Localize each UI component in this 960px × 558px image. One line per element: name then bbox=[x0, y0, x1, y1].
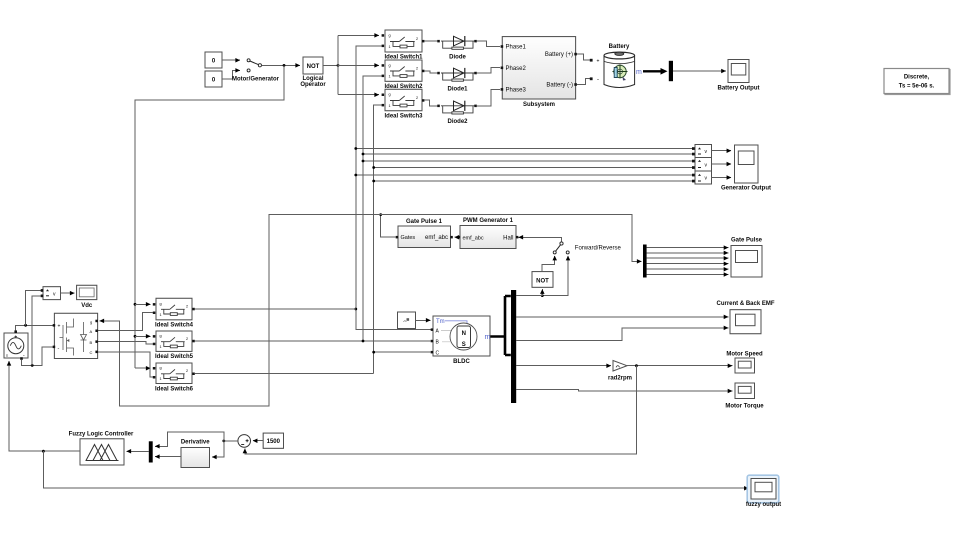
wire VM3 to scope bbox=[712, 177, 732, 179]
wire Battery(+) to battery bbox=[577, 54, 590, 60]
mux fuzzy inputs bbox=[149, 441, 153, 462]
Ideal Switch4 bbox=[153, 298, 195, 328]
annotation powergui Discrete bbox=[884, 69, 949, 94]
svg-text:Battery (+): Battery (+) bbox=[545, 52, 573, 58]
svg-text:Generator Output: Generator Output bbox=[721, 185, 771, 191]
wire g to sw6 bbox=[135, 367, 151, 369]
constant 0 (Zero1) bbox=[205, 52, 222, 68]
svg-text:Battery (-): Battery (-) bbox=[546, 83, 573, 89]
wire inverter B to sw5 bbox=[98, 342, 153, 344]
svg-text:C: C bbox=[90, 350, 93, 355]
wire PWM emf to GatePulse1 bbox=[455, 236, 458, 238]
node phase C tap bbox=[372, 351, 375, 354]
wire gates right branch bbox=[381, 215, 642, 262]
svg-text:Discrete,: Discrete, bbox=[904, 75, 930, 81]
wire FLC to fuzzy scope bbox=[43, 451, 748, 488]
svg-text:g: g bbox=[389, 34, 391, 38]
block PWM Generator 1 bbox=[458, 218, 519, 249]
svg-text:1: 1 bbox=[160, 345, 162, 349]
Diode bbox=[437, 36, 477, 61]
manual switch Forward/Reverse bbox=[519, 237, 622, 254]
Ideal Switch2 bbox=[382, 60, 425, 90]
svg-text:Diode1: Diode1 bbox=[447, 86, 468, 92]
svg-text:Phase2: Phase2 bbox=[506, 66, 527, 72]
wire derivative to mux in2 bbox=[155, 456, 181, 458]
wire gain to Motor Speed bbox=[627, 365, 732, 367]
bus selector bar bbox=[511, 290, 516, 403]
svg-text:B: B bbox=[90, 340, 93, 345]
svg-text:g: g bbox=[160, 302, 162, 306]
node phase A tap bbox=[354, 308, 357, 311]
svg-text:g: g bbox=[389, 93, 391, 97]
wire VM1 to scope bbox=[712, 150, 732, 152]
svg-text:g: g bbox=[389, 63, 391, 67]
svg-text:Diode2: Diode2 bbox=[447, 119, 468, 125]
svg-text:NOT: NOT bbox=[536, 278, 549, 284]
wire bar to CBEMF in1 bbox=[516, 316, 728, 318]
wire BLDC B input bbox=[195, 340, 431, 342]
wire speed feedback down to sum bbox=[245, 366, 637, 454]
svg-text:Forward/Reverse: Forward/Reverse bbox=[575, 246, 622, 252]
fuzzy logic controller bbox=[69, 432, 134, 465]
svg-text:s: s bbox=[6, 353, 8, 358]
wire hall to NOT1 bbox=[541, 289, 543, 295]
battery block bbox=[597, 44, 643, 88]
svg-text:1: 1 bbox=[389, 45, 391, 49]
wire gates left branch bbox=[100, 215, 381, 406]
node g sw4 bbox=[134, 303, 137, 306]
wire g to sw5 bbox=[135, 335, 151, 337]
inverter bridge block bbox=[53, 313, 98, 358]
node g-dist bbox=[337, 64, 340, 67]
wire inverter C to sw6 bbox=[98, 352, 153, 377]
svg-text:Battery: Battery bbox=[609, 44, 630, 50]
wire plus up to VM bbox=[26, 290, 42, 325]
gain rad2rpm bbox=[608, 361, 632, 382]
svg-text:m: m bbox=[485, 334, 491, 341]
voltage measurement VM3 bbox=[692, 171, 712, 184]
wire g to Ideal Switch3 bbox=[338, 94, 379, 96]
wire sw3 to Diode2 bbox=[424, 100, 437, 106]
Ideal Switch6 bbox=[153, 363, 195, 392]
svg-text:emf_abc: emf_abc bbox=[425, 235, 448, 241]
wire bar to Motor Torque bbox=[516, 390, 732, 391]
wire bar to CBEMF in2 bbox=[516, 328, 728, 341]
node error bbox=[222, 440, 225, 443]
wire g to Ideal Switch1 bbox=[338, 34, 379, 36]
voltage measurement Vdc sensor bbox=[41, 287, 61, 300]
svg-text:rad2rpm: rad2rpm bbox=[608, 376, 632, 382]
svg-text:2: 2 bbox=[416, 37, 418, 41]
scope fuzzy output (selected) bbox=[746, 475, 781, 508]
svg-text:N: N bbox=[462, 331, 466, 337]
scope Battery Output bbox=[718, 60, 760, 92]
wire g bus vertical bbox=[337, 35, 339, 94]
svg-text:Current & Back EMF: Current & Back EMF bbox=[716, 301, 774, 307]
Ideal Switch1 bbox=[382, 30, 425, 60]
wire 1500 to sum bbox=[253, 440, 263, 442]
wire mux to Battery Output bbox=[673, 70, 726, 72]
wire Diode2 to Phase3 bbox=[477, 89, 500, 106]
svg-text:NOT: NOT bbox=[307, 64, 320, 70]
voltage measurement VM1 bbox=[692, 145, 712, 158]
svg-text:Tm: Tm bbox=[436, 319, 445, 325]
svg-text:-: - bbox=[597, 77, 599, 83]
controlled voltage source bbox=[4, 330, 28, 359]
svg-text:Battery Output: Battery Output bbox=[718, 85, 760, 91]
wire sum output bbox=[224, 440, 238, 442]
scope Motor Torque bbox=[725, 383, 764, 409]
wire Zero1 to switch bbox=[222, 59, 240, 61]
svg-text:+: + bbox=[597, 58, 600, 64]
wire NOT to g-distribution bbox=[323, 64, 338, 66]
svg-text:Gates: Gates bbox=[401, 235, 416, 241]
node source plus bbox=[24, 324, 27, 327]
sum block bbox=[238, 435, 251, 448]
Diode1 bbox=[437, 68, 477, 92]
wire MotorGen feedback down-left bbox=[135, 65, 284, 368]
wire VM to Vdc display bbox=[61, 292, 75, 294]
manual switch Motor/Generator bbox=[232, 59, 280, 83]
svg-text:1: 1 bbox=[160, 377, 162, 381]
wire phase B vertical bbox=[363, 76, 382, 341]
wire switch to NOT bbox=[262, 64, 300, 66]
wire g to sw4 bbox=[135, 303, 151, 305]
scope Motor Speed bbox=[726, 351, 763, 373]
constant 0 (Zero2) bbox=[205, 71, 222, 87]
wire error to derivative bbox=[212, 441, 224, 457]
wire Diode to Phase1 bbox=[477, 41, 500, 46]
svg-text:2: 2 bbox=[416, 66, 418, 70]
wire meas line 4 bbox=[374, 167, 693, 169]
constant 1500 bbox=[263, 433, 283, 448]
torque source block bbox=[398, 312, 416, 329]
svg-text:1: 1 bbox=[389, 75, 391, 79]
svg-text:Ideal Switch5: Ideal Switch5 bbox=[155, 354, 194, 360]
svg-text:g: g bbox=[90, 319, 92, 324]
Ideal Switch5 bbox=[153, 331, 195, 360]
node FLC out bbox=[42, 450, 45, 453]
wires demux to Gate Pulse scope bbox=[647, 247, 729, 249]
wire hall to switch right contact bbox=[516, 256, 568, 296]
node after switch bbox=[283, 64, 286, 67]
wire Battery(-) to battery bbox=[577, 79, 590, 85]
wire sw2 to Diode1 bbox=[424, 71, 437, 73]
svg-text:Ideal Switch6: Ideal Switch6 bbox=[155, 386, 194, 392]
svg-text:Ideal Switch1: Ideal Switch1 bbox=[384, 54, 423, 60]
svg-text:Ts = 5e-06 s.: Ts = 5e-06 s. bbox=[899, 84, 935, 90]
svg-text:Motor/Generator: Motor/Generator bbox=[232, 77, 280, 83]
wire meas line 3 bbox=[363, 160, 693, 162]
node g sw5 bbox=[134, 335, 137, 338]
svg-text:Ideal Switch4: Ideal Switch4 bbox=[155, 322, 194, 328]
wire meas line 5 bbox=[356, 174, 693, 176]
logical operator NOT1 (reverse) bbox=[532, 272, 553, 288]
svg-text:emf_abc: emf_abc bbox=[463, 235, 484, 241]
mux battery bbox=[669, 61, 673, 81]
svg-text:C: C bbox=[436, 350, 440, 356]
wire inverter A to sw4 bbox=[98, 313, 153, 331]
svg-text:Motor Speed: Motor Speed bbox=[726, 351, 763, 357]
scope Generator Output bbox=[721, 145, 771, 191]
wire Gates loop to inverter g and gate mux bbox=[381, 215, 396, 238]
svg-text:1: 1 bbox=[160, 313, 162, 317]
node hall bbox=[541, 294, 544, 297]
node phase B tap bbox=[362, 340, 365, 343]
wire hall from bar bbox=[516, 295, 542, 297]
svg-text:Vdc: Vdc bbox=[81, 303, 93, 309]
svg-text:Subsystem: Subsystem bbox=[523, 102, 555, 108]
wire bar to gain bbox=[516, 365, 611, 367]
display Vdc bbox=[77, 285, 97, 309]
wire phase C vertical bbox=[374, 105, 382, 374]
svg-text:fuzzy output: fuzzy output bbox=[746, 502, 781, 508]
voltage measurement VM2 bbox=[692, 158, 712, 172]
thick bus BLDC m to demux bbox=[490, 296, 510, 355]
logical operator NOT bbox=[300, 57, 326, 88]
svg-text:Motor Torque: Motor Torque bbox=[725, 403, 764, 409]
svg-text:1500: 1500 bbox=[267, 439, 281, 445]
svg-text:Fuzzy Logic Controller: Fuzzy Logic Controller bbox=[69, 432, 134, 438]
scope Current & Back EMF bbox=[716, 301, 774, 334]
thick bus battery m to mux bbox=[643, 70, 662, 72]
wire sw1 to Diode bbox=[424, 40, 437, 42]
svg-text:g: g bbox=[160, 366, 162, 370]
svg-text:1: 1 bbox=[389, 104, 391, 108]
wire sw4 output bbox=[195, 308, 356, 310]
svg-text:BLDC: BLDC bbox=[453, 359, 470, 365]
Diode2 bbox=[437, 101, 477, 125]
svg-text:Gate Pulse 1: Gate Pulse 1 bbox=[406, 219, 443, 225]
svg-text:Derivative: Derivative bbox=[181, 439, 210, 445]
svg-text:2: 2 bbox=[186, 337, 188, 341]
svg-text:m: m bbox=[636, 69, 642, 76]
svg-text:Ideal Switch3: Ideal Switch3 bbox=[384, 113, 423, 119]
node source minus bbox=[31, 364, 34, 367]
svg-text:Operator: Operator bbox=[300, 82, 326, 88]
wire NOT1 out to switch left contact bbox=[542, 256, 555, 272]
svg-text:PWM Generator 1: PWM Generator 1 bbox=[463, 218, 514, 224]
wire minus up to VM bbox=[32, 296, 41, 366]
wire error to mux in1 bbox=[155, 432, 224, 446]
wire meas line 6 bbox=[374, 180, 693, 182]
demux gate pulses bbox=[643, 245, 647, 278]
svg-text:g: g bbox=[160, 334, 162, 338]
wire g to Ideal Switch2 bbox=[338, 64, 379, 66]
wire sw6 output bbox=[195, 373, 374, 375]
scope Gate Pulse bbox=[731, 238, 763, 277]
svg-text:A: A bbox=[90, 329, 93, 334]
wire meas line 1 bbox=[356, 148, 693, 150]
derivative block bbox=[181, 439, 210, 467]
wire BLDC C input bbox=[374, 351, 431, 353]
BLDC motor block bbox=[431, 316, 491, 365]
wire FLC output left bbox=[9, 361, 80, 451]
Ideal Switch3 bbox=[382, 89, 425, 119]
wire meas line 2 bbox=[363, 153, 693, 155]
wire source + to inverter and VM bbox=[16, 325, 53, 330]
node speed feedback bbox=[635, 364, 638, 367]
svg-text:Hall: Hall bbox=[503, 235, 513, 241]
svg-text:Gate Pulse: Gate Pulse bbox=[731, 238, 763, 244]
wire Zero2 to switch bbox=[222, 70, 240, 79]
svg-text:2: 2 bbox=[186, 305, 188, 309]
svg-text:+: + bbox=[58, 324, 61, 330]
wire source - down bbox=[22, 347, 54, 366]
block Gate Pulse 1 bbox=[396, 219, 453, 248]
wire Diode1 to Phase2 bbox=[477, 68, 500, 73]
svg-text:Phase3: Phase3 bbox=[506, 87, 527, 93]
svg-text:-: - bbox=[58, 346, 60, 352]
wire VM2 to scope bbox=[712, 163, 732, 165]
svg-text:Diode: Diode bbox=[449, 55, 466, 61]
svg-text:2: 2 bbox=[186, 369, 188, 373]
svg-text:S: S bbox=[462, 342, 466, 348]
subsystem bbox=[501, 37, 577, 108]
svg-text:Phase1: Phase1 bbox=[506, 45, 527, 51]
svg-text:2: 2 bbox=[416, 96, 418, 100]
wire torque to Tm bbox=[416, 319, 431, 321]
wire mux to FLC bbox=[127, 450, 149, 452]
wire phase A vertical bbox=[356, 46, 431, 330]
